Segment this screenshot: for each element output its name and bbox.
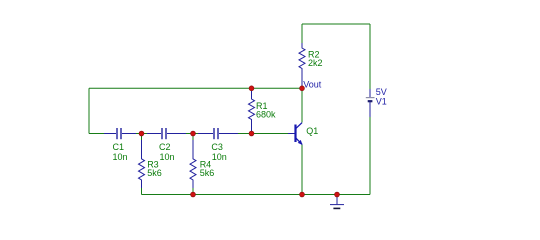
svg-text:C3: C3 xyxy=(211,142,223,152)
svg-text:C1: C1 xyxy=(113,142,125,152)
svg-text:Vout: Vout xyxy=(303,80,322,90)
svg-text:2k2: 2k2 xyxy=(308,58,323,68)
svg-text:C2: C2 xyxy=(159,142,171,152)
svg-text:10n: 10n xyxy=(113,152,128,162)
svg-text:5k6: 5k6 xyxy=(147,168,162,178)
svg-text:680k: 680k xyxy=(256,109,276,119)
svg-text:V1: V1 xyxy=(376,96,387,106)
svg-text:5k6: 5k6 xyxy=(200,168,215,178)
svg-text:10n: 10n xyxy=(212,152,227,162)
svg-text:10n: 10n xyxy=(160,152,175,162)
svg-text:Q1: Q1 xyxy=(306,126,318,136)
